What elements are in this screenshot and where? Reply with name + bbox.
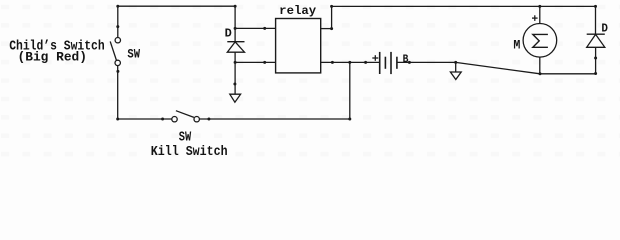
svg-text:D: D	[225, 27, 232, 41]
svg-text:M: M	[513, 38, 520, 52]
svg-text:Kill Switch: Kill Switch	[151, 144, 228, 160]
svg-text:(Big Red): (Big Red)	[18, 49, 88, 64]
svg-text:D: D	[601, 21, 608, 35]
svg-text:SW: SW	[127, 46, 140, 61]
svg-text:B: B	[403, 54, 409, 66]
svg-text:relay: relay	[279, 5, 316, 18]
